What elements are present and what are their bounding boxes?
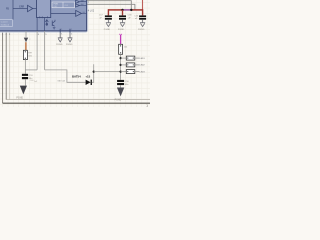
control logic box inside U1 xyxy=(37,0,51,18)
wire red drop C56 xyxy=(142,9,144,15)
sheet border outer horizontal line xyxy=(3,102,150,104)
power bus red left xyxy=(108,9,122,11)
resistor R103 row3 xyxy=(121,70,146,74)
wire to diode branch xyxy=(45,70,86,82)
svg-text:BST: BST xyxy=(81,0,84,2)
junction dot rail 1 xyxy=(120,57,122,59)
capacitor C56 xyxy=(134,15,146,31)
svg-text:OSC: OSC xyxy=(53,6,58,8)
diode D15 xyxy=(86,80,92,85)
svg-text:BAT54: BAT54 xyxy=(72,75,81,79)
svg-text:LED2: LED2 xyxy=(140,65,146,67)
wire red drop C58 xyxy=(122,10,124,16)
transistor glyph xyxy=(52,20,55,26)
grid xyxy=(0,0,150,107)
wire CS pin stub xyxy=(25,31,27,37)
svg-text:BAT54A: BAT54A xyxy=(58,80,66,83)
svg-text:1: 1 xyxy=(61,29,62,31)
ground PGND B under U1 xyxy=(66,33,73,46)
pin tick GND A xyxy=(59,29,61,33)
resistor R97 xyxy=(23,50,33,59)
svg-text:ERR: ERR xyxy=(19,6,24,8)
pin ticks on control box bottom xyxy=(40,16,48,18)
wire red drop C57 xyxy=(107,9,109,15)
junction dot rail 2 xyxy=(120,64,122,66)
faint vertical line xyxy=(9,31,11,100)
svg-text:PGND: PGND xyxy=(138,29,145,31)
resistor R101 row1 xyxy=(121,56,146,60)
sheet border inner horizontal line xyxy=(6,99,150,101)
resistor R106 vertical xyxy=(119,44,128,54)
net stub +5 magenta xyxy=(119,34,122,45)
wire pin4 drop xyxy=(36,31,38,70)
wire right rail xyxy=(120,54,122,80)
power bus violet mid xyxy=(123,9,132,11)
junction dot bus A xyxy=(121,9,123,11)
svg-text:LED3: LED3 xyxy=(140,71,146,73)
svg-text:PGND: PGND xyxy=(56,44,63,46)
capacitor C57 xyxy=(99,15,112,31)
sheet border outer vertical line xyxy=(2,31,4,103)
wire low driver out xyxy=(82,12,87,14)
wire node to pin4 xyxy=(25,69,37,71)
ground small inside U1 xyxy=(53,27,56,29)
svg-text:Current: Current xyxy=(1,21,8,24)
op-amp error amplifier xyxy=(28,5,33,11)
net line BST top right xyxy=(87,1,131,10)
pin tick GND B xyxy=(69,29,71,33)
wire buffer A out xyxy=(80,1,87,3)
capacitor C90 xyxy=(117,80,130,86)
sheet background xyxy=(0,0,150,107)
wire pin 4 drop inside U1 xyxy=(36,18,38,31)
wire diode cathode xyxy=(92,64,94,82)
driver buffer high A xyxy=(76,0,80,3)
svg-text:PGND: PGND xyxy=(115,100,122,102)
capacitor C59 xyxy=(22,74,34,80)
svg-text:PGND: PGND xyxy=(16,98,23,100)
svg-text:+15: +15 xyxy=(85,75,90,79)
wire pin9 drop xyxy=(44,31,46,70)
junction dot bus B xyxy=(130,9,132,11)
svg-text:4 LX2: 4 LX2 xyxy=(88,9,95,12)
wire pin 9 drop inside U1 xyxy=(44,18,46,31)
svg-text:FB: FB xyxy=(6,9,9,11)
power arrow symbol xyxy=(24,38,28,43)
svg-text:feedback: feedback xyxy=(1,25,9,27)
wire to low driver xyxy=(51,12,76,14)
resistor R102 row2 xyxy=(121,63,146,67)
ground PGND A under U1 xyxy=(56,33,63,46)
svg-text:PGND: PGND xyxy=(104,29,111,31)
capacitor C58 xyxy=(118,15,132,31)
ground PGND left triangle xyxy=(20,86,27,95)
wire C59 to ground xyxy=(24,79,26,85)
wire red riser top edge xyxy=(142,0,144,10)
wire orange CS xyxy=(25,42,27,50)
svg-text:PGND: PGND xyxy=(66,44,73,46)
net line GH top right xyxy=(87,4,135,10)
driver buffer low xyxy=(76,10,82,16)
driver buffer high B xyxy=(76,4,80,7)
wire ERR horizontal xyxy=(13,8,28,10)
sheet border inner vertical line xyxy=(5,31,7,100)
wire buffer B out xyxy=(80,5,87,7)
wire R97 to C59 xyxy=(24,60,26,74)
oscillator box inside U1 xyxy=(52,2,75,8)
current feedback box xyxy=(0,20,12,27)
junction dot rail 3 xyxy=(120,71,122,73)
svg-text:1: 1 xyxy=(71,29,72,31)
power bus red right xyxy=(131,9,142,11)
svg-text:LED1: LED1 xyxy=(140,58,146,60)
current source glyph xyxy=(45,20,48,26)
wire to right rail xyxy=(94,71,121,73)
svg-text:PGND: PGND xyxy=(118,29,125,31)
wire C90 to ground xyxy=(120,85,122,87)
junction dot diode net xyxy=(93,71,95,73)
wire FB vertical inside U1 xyxy=(12,0,14,20)
ground PGND right triangle xyxy=(117,88,124,97)
wire op-amp output xyxy=(33,8,37,10)
IC block U1 body xyxy=(0,0,88,32)
svg-text:GL: GL xyxy=(83,12,85,14)
